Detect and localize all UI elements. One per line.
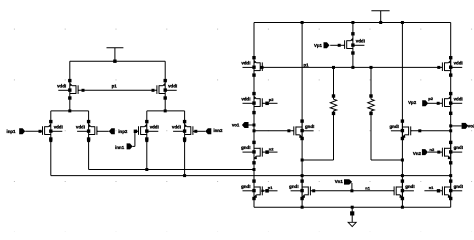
svg-text:vdd!: vdd! — [76, 124, 86, 129]
svg-text:gnd!: gnd! — [305, 124, 315, 129]
svg-text:gnd!: gnd! — [289, 184, 299, 189]
svg-text:Vp1: Vp1 — [314, 43, 323, 48]
svg-text:gnd!: gnd! — [454, 184, 464, 189]
svg-text:vo2: vo2 — [468, 123, 474, 128]
svg-text:Vp2: Vp2 — [408, 100, 417, 105]
svg-text:vdd!: vdd! — [57, 83, 67, 88]
svg-text:gnd!: gnd! — [241, 145, 251, 150]
svg-text:gnd!: gnd! — [405, 184, 415, 189]
svg-text:vdd!: vdd! — [150, 124, 160, 129]
svg-text:n1: n1 — [268, 185, 273, 190]
svg-text:p2: p2 — [428, 96, 433, 101]
svg-text:Vn1: Vn1 — [335, 179, 344, 184]
svg-text:n2: n2 — [269, 147, 274, 152]
svg-text:n2: n2 — [430, 147, 435, 152]
svg-text:inp1: inp1 — [6, 129, 16, 134]
svg-text:inn1: inn1 — [115, 145, 125, 150]
svg-text:vdd!: vdd! — [172, 124, 182, 129]
svg-text:vdd!: vdd! — [241, 60, 251, 65]
svg-text:p1: p1 — [112, 84, 118, 89]
svg-text:vdd!: vdd! — [168, 83, 178, 88]
svg-text:p1: p1 — [304, 62, 310, 67]
svg-text:vdd!: vdd! — [454, 96, 464, 101]
svg-text:vdd!: vdd! — [241, 96, 251, 101]
svg-text:vo1: vo1 — [232, 123, 240, 128]
svg-text:gnd!: gnd! — [389, 124, 399, 129]
svg-text:vdd!: vdd! — [356, 38, 366, 43]
svg-text:n1: n1 — [429, 185, 434, 190]
svg-text:p2: p2 — [269, 97, 274, 102]
svg-text:inp2: inp2 — [118, 129, 128, 134]
svg-text:inn2: inn2 — [213, 128, 223, 133]
svg-text:n1: n1 — [365, 185, 370, 190]
svg-text:gnd!: gnd! — [241, 184, 251, 189]
svg-text:gnd!: gnd! — [454, 145, 464, 150]
svg-text:vdd!: vdd! — [54, 124, 64, 129]
svg-text:Vn2: Vn2 — [413, 151, 422, 156]
svg-text:vdd!: vdd! — [454, 60, 464, 65]
